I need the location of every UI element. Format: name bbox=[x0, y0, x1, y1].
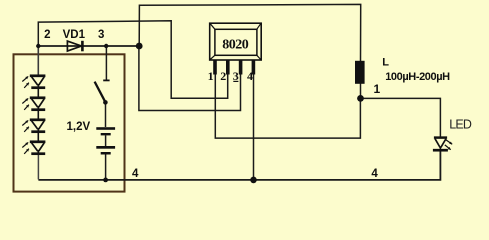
svg-text:100µH-200µH: 100µH-200µH bbox=[385, 71, 450, 83]
photodiode D1 bbox=[30, 76, 46, 97]
node 2 dot bbox=[36, 44, 40, 48]
svg-text:VD1: VD1 bbox=[63, 29, 86, 41]
svg-text:2: 2 bbox=[44, 29, 50, 41]
IC U1 package bevels bbox=[210, 24, 261, 60]
wire switch to battery bbox=[105, 103, 107, 128]
photodiode D4 bbox=[30, 142, 46, 154]
IC U1 package inner bbox=[215, 29, 257, 55]
svg-text:1: 1 bbox=[208, 69, 214, 83]
svg-text:2: 2 bbox=[220, 69, 226, 83]
LED D5 bbox=[433, 138, 448, 151]
wire node2 to top rail2 to pin2 path bbox=[38, 21, 227, 98]
svg-text:1: 1 bbox=[374, 82, 381, 96]
wire inductor bottom to node1 bbox=[360, 84, 362, 99]
bottom rail wire bbox=[38, 150, 440, 180]
wire junction down to pin3 path bbox=[139, 46, 241, 111]
svg-text:3: 3 bbox=[98, 29, 104, 41]
light arrows into D3 bbox=[22, 120, 29, 131]
wire node3 down to switch bbox=[105, 46, 107, 80]
switch SA1 pivot dot bbox=[103, 100, 108, 105]
battery GB1 cell2 minus plate bbox=[101, 152, 111, 155]
wire top rail1 junction to inductor bbox=[139, 4, 361, 61]
LED emission arrows bbox=[445, 140, 452, 150]
wire battery minus down to bottom rail bbox=[105, 155, 107, 180]
inductor L body bbox=[355, 61, 365, 84]
battery GB1 cell1 minus plate bbox=[101, 133, 111, 135]
wire node1 right to LED anode bbox=[361, 98, 441, 136]
switch SA1 lever bbox=[95, 82, 106, 102]
light arrows into D2 bbox=[22, 98, 29, 110]
node 3 dot bbox=[104, 44, 108, 48]
diode VD1 bbox=[67, 41, 82, 52]
IC U1 8020 package outer bbox=[210, 23, 262, 60]
wire solar chain bottom bbox=[37, 154, 39, 179]
svg-text:1,2V: 1,2V bbox=[67, 121, 91, 133]
wire node2-VD1-node3-junction horizontal bbox=[38, 45, 139, 47]
wire pin4 down to bottom rail bbox=[253, 72, 255, 180]
IC pin 4 lead bbox=[252, 60, 256, 75]
junction dot at rail bbox=[136, 43, 143, 50]
battery GB1 cell1 plus plate bbox=[96, 127, 115, 130]
battery GB1 cell2 plus plate bbox=[96, 146, 115, 149]
photodiode D2 bbox=[30, 98, 46, 119]
light arrows into D4 bbox=[22, 142, 29, 154]
solar panel module box bbox=[14, 54, 125, 191]
svg-text:4: 4 bbox=[132, 168, 139, 180]
node 1 dot bbox=[357, 95, 364, 102]
svg-text:L: L bbox=[382, 56, 389, 68]
bottom rail junction dot pin4 bbox=[250, 177, 257, 184]
wire solar chain top bbox=[37, 46, 39, 76]
svg-text:4: 4 bbox=[371, 168, 378, 180]
IC pin 2 lead bbox=[226, 60, 230, 75]
battery bottom junction dot bbox=[103, 178, 108, 183]
light arrows into D1 bbox=[22, 76, 29, 88]
IC pin 3 lead bbox=[239, 60, 243, 75]
IC pin 1 lead bbox=[213, 60, 217, 75]
svg-text:8020: 8020 bbox=[222, 38, 249, 53]
switch SA1 fixed contact bbox=[103, 79, 109, 81]
wire battery cell link bbox=[105, 135, 107, 146]
svg-text:LED: LED bbox=[449, 117, 472, 131]
svg-text:4: 4 bbox=[247, 69, 253, 83]
wire pin1 down-right to node1 bbox=[215, 72, 360, 139]
photodiode D3 bbox=[30, 120, 46, 141]
